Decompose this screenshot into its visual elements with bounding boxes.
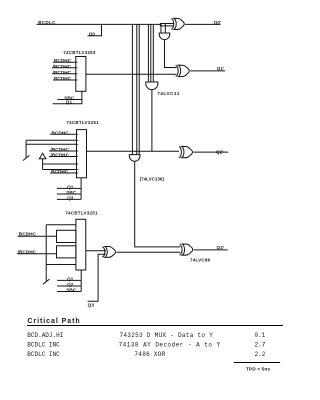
svg-text:BCDLC INC: BCDLC INC bbox=[27, 342, 60, 349]
xor-gate U9 (stage) bbox=[102, 247, 104, 258]
wire U1 pin3 bbox=[52, 73, 76, 75]
wire Q3 bbox=[57, 198, 81, 200]
wire U4 output down to XOR U3c bbox=[151, 90, 153, 152]
wire triangle vertical bbox=[42, 159, 44, 170]
wire U5 pin8 bbox=[50, 172, 76, 174]
wire Q0 stub bbox=[88, 25, 102, 36]
wire U6 output down then right to XOR U7 bbox=[135, 161, 181, 247]
decoder outer bracket top bbox=[46, 224, 76, 226]
wire BCDHC into cell1 bbox=[18, 235, 57, 237]
decoder inner cell 2 bbox=[57, 246, 76, 258]
wire U5 pin3 loop bbox=[26, 143, 76, 145]
svg-text:Q0': Q0' bbox=[214, 20, 222, 25]
wire Q1 bbox=[57, 187, 81, 189]
wire U8 bottom select vertical bbox=[80, 270, 82, 292]
wire U9 output to XOR U10 bbox=[116, 251, 180, 253]
mux U1 body bbox=[76, 57, 86, 92]
wire U5 bottom select vertical bbox=[80, 178, 82, 200]
and-gate U6 74LVC136 (pointing down) bbox=[129, 155, 140, 162]
pin ticks box1/box2 bbox=[76, 61, 78, 63]
svg-text:74CBTLV3251: 74CBTLV3251 bbox=[66, 120, 99, 125]
wire bus vertical 4 bbox=[147, 24, 149, 82]
svg-text:74138 AY Decoder - A to Y: 74138 AY Decoder - A to Y bbox=[119, 342, 221, 349]
wire Q1 bbox=[53, 103, 82, 105]
wire U5 pin2 loop bbox=[26, 139, 76, 141]
svg-text:BCDLC INC: BCDLC INC bbox=[27, 351, 60, 358]
svg-text:Critical Path: Critical Path bbox=[27, 318, 80, 325]
svg-text:2.2: 2.2 bbox=[255, 351, 266, 358]
open input triangle bbox=[39, 153, 46, 158]
wire Q0' output bbox=[185, 23, 220, 25]
and-gate U2a (74LVC11 slice, pointing down) bbox=[159, 33, 170, 40]
decoder inner cell 1 bbox=[57, 230, 76, 242]
wire SBC bbox=[57, 193, 81, 195]
svg-text:(74LVC136): (74LVC136) bbox=[140, 176, 165, 181]
wire U5 pin7 bbox=[43, 169, 77, 171]
svg-text:Q1': Q1' bbox=[217, 66, 225, 71]
svg-text:Q3: Q3 bbox=[88, 303, 95, 308]
svg-text:TPD = 5ns: TPD = 5ns bbox=[246, 367, 270, 373]
wire U5 pin1 bbox=[50, 133, 76, 135]
wire U5 pin6 bbox=[43, 163, 77, 165]
decoder U8 body bbox=[76, 219, 86, 270]
no-connect slash 2 bbox=[43, 279, 50, 284]
wire U2a output down then right to XOR U3b bbox=[165, 40, 177, 68]
wire bus vertical 2 bbox=[136, 24, 138, 154]
wire /BCDHC into cell2 bbox=[17, 253, 57, 255]
svg-text:BCD.ADJ.HI: BCD.ADJ.HI bbox=[27, 332, 63, 339]
wire bus vertical 6 bbox=[152, 24, 154, 82]
table heading rule bbox=[27, 325, 283, 327]
wire U1 output to XOR U3b bbox=[86, 73, 176, 75]
and-gate U4 74LVC11 (pointing down) bbox=[146, 82, 158, 90]
wire U1 pin4 bbox=[53, 79, 76, 81]
decoder outer bracket vertical bbox=[45, 225, 47, 281]
wire bus vertical 1 bbox=[131, 24, 133, 154]
svg-text:2.7: 2.7 bbox=[255, 342, 266, 349]
decoder outer bracket bottom bbox=[46, 264, 76, 266]
svg-text:0.1: 0.1 bbox=[255, 332, 266, 339]
wire SBC bbox=[57, 291, 81, 293]
wire U1 pin1 bbox=[53, 61, 76, 63]
total rule bbox=[234, 362, 280, 364]
wire left vertical with termination bbox=[25, 140, 27, 157]
svg-text:74LVC11: 74LVC11 bbox=[157, 91, 180, 96]
xor-gate U3a (Q0') bbox=[171, 18, 173, 29]
xor-gate U10 (Q3') bbox=[180, 244, 182, 255]
wire U5 pin5 bbox=[49, 156, 76, 158]
wire Q3' output bbox=[194, 249, 228, 251]
svg-text:BCDHC: BCDHC bbox=[19, 231, 37, 236]
wire BCDLC top horizontal bbox=[37, 23, 161, 25]
wire Q2 bbox=[57, 285, 81, 287]
wire Q1' output bbox=[190, 70, 225, 72]
svg-text:7486 XOR: 7486 XOR bbox=[134, 351, 165, 358]
wire U1 pin2 bbox=[52, 67, 76, 69]
xor-gate U3b (Q1') bbox=[176, 65, 178, 76]
wire U5 pin4 bbox=[49, 150, 76, 152]
svg-text:Q2': Q2' bbox=[216, 149, 224, 154]
wire U5 output to XOR U3c bbox=[87, 150, 180, 152]
wire bus vertical 5 bbox=[150, 24, 152, 82]
svg-text:743253 D MUX - Data to Y: 743253 D MUX - Data to Y bbox=[120, 332, 214, 339]
wire Q1 bbox=[57, 279, 81, 281]
wire SBC bbox=[58, 99, 82, 101]
svg-text:74LVC86: 74LVC86 bbox=[190, 258, 211, 263]
and-gate U2a input stubs bbox=[160, 24, 162, 34]
wire U8 output to XOR U9 bbox=[86, 250, 106, 252]
svg-text:74CBTLV3253: 74CBTLV3253 bbox=[63, 50, 96, 55]
wire Q2' output bbox=[193, 151, 228, 153]
svg-text:74CBTLV3251: 74CBTLV3251 bbox=[65, 211, 98, 216]
no-connect slash bbox=[23, 155, 30, 160]
wire bus vertical 3 bbox=[138, 24, 140, 154]
xor-gate U3c (Q2') bbox=[179, 146, 181, 157]
svg-text:Q3': Q3' bbox=[217, 245, 225, 250]
wire Q3 feedback vertical bbox=[88, 254, 106, 301]
mux U5 body bbox=[77, 130, 87, 178]
wire U1 bottom select vertical bbox=[81, 91, 83, 104]
